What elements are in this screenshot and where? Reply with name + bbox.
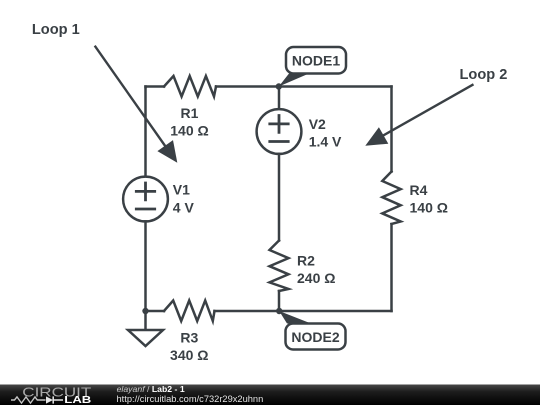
node ground junction dot (142, 308, 148, 314)
node NODE2 junction dot (276, 308, 282, 314)
svg-text:R3: R3 (180, 330, 198, 346)
label R4 value (410, 182, 448, 216)
wire right vertical upper (top corner to R4) (390, 87, 393, 172)
wire R4 to bottom-right corner (390, 224, 393, 311)
svg-text:1.4 V: 1.4 V (309, 133, 342, 149)
label V1 value (173, 181, 195, 215)
ground (128, 311, 163, 346)
logo diode symbol (46, 396, 63, 403)
resistor R1 (164, 76, 216, 97)
wire R2 to node2 (278, 291, 281, 311)
voltage source V1 (123, 177, 168, 222)
svg-text:http://circuitlab.com/c732r29x: http://circuitlab.com/c732r29x2uhnn (117, 394, 264, 404)
svg-text:4 V: 4 V (173, 199, 195, 215)
resistor R2 (270, 241, 289, 292)
svg-text:Loop 2: Loop 2 (460, 67, 508, 83)
wire left vertical upper (corner to V1) (144, 87, 147, 177)
label R3 value (170, 330, 208, 364)
label V2 value (309, 116, 342, 150)
resistor R4 (382, 172, 400, 225)
arrow Loop 1 (95, 46, 178, 163)
svg-text:340 Ω: 340 Ω (170, 347, 208, 363)
wire R1 to top-right corner (216, 85, 392, 88)
svg-text:140 Ω: 140 Ω (170, 123, 208, 139)
svg-text:R4: R4 (410, 182, 428, 198)
resistor R3 (164, 301, 215, 322)
svg-text:NODE1: NODE1 (292, 53, 340, 69)
node NODE2 callout (279, 311, 345, 350)
label R2 value (297, 253, 335, 287)
arrow Loop 2 (365, 84, 473, 146)
wire left vertical lower (V1 to bottom) (144, 221, 147, 311)
footer bar (0, 385, 540, 405)
svg-text:R2: R2 (297, 253, 315, 269)
svg-text:V1: V1 (173, 181, 190, 197)
wire V2 to R2 (278, 154, 281, 241)
wire bottom-left to R3 (146, 310, 165, 313)
node NODE1 junction dot (276, 83, 282, 89)
svg-text:R1: R1 (181, 105, 199, 121)
svg-text:Loop 1: Loop 1 (32, 22, 80, 38)
svg-text:NODE2: NODE2 (291, 329, 339, 345)
logo resistor squiggle (11, 397, 46, 403)
wire top-left corner to R1 (146, 85, 165, 88)
label R1 value (170, 105, 208, 139)
svg-text:elayanf / Lab2 - 1: elayanf / Lab2 - 1 (117, 384, 185, 394)
svg-text:V2: V2 (309, 116, 326, 132)
voltage source V2 (257, 109, 302, 154)
wire R3 to bottom-right corner (215, 310, 392, 313)
svg-text:140 Ω: 140 Ω (410, 200, 448, 216)
wire middle vertical upper (node1 to V2) (278, 87, 281, 110)
node NODE1 callout (279, 47, 346, 87)
svg-text:240 Ω: 240 Ω (297, 270, 335, 286)
svg-text:LAB: LAB (64, 395, 91, 405)
